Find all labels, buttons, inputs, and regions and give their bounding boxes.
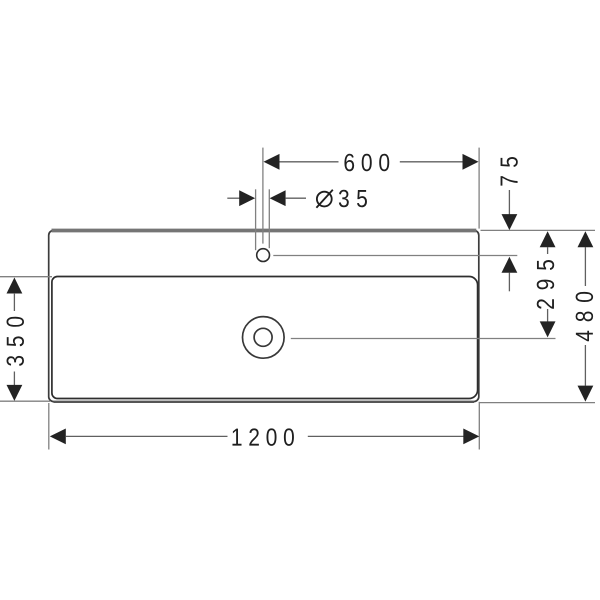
extension line: left top horizontal (0, 276, 52, 278)
extension line: bottom right horizontal (479, 402, 595, 404)
dim 600 arrow right (463, 154, 479, 170)
basin top rim band (52, 229, 477, 233)
dim 600 line right segment (400, 161, 463, 163)
extension line: bottom left vertical (48, 403, 50, 450)
dim 350 text (7, 317, 24, 366)
dim 35 right tail (285, 197, 306, 199)
extension line: faucet level horizontal (273, 255, 517, 257)
extension line: left bottom horizontal (0, 400, 50, 402)
extension line: bottom right vertical (478, 402, 480, 450)
dim 350 upper tail (13, 294, 15, 311)
basin inner rect (52, 277, 478, 399)
extension line: faucet center vertical (262, 148, 264, 244)
dim 295 arrow down (540, 321, 556, 337)
dim 480 lower tail (584, 345, 586, 386)
dim 75 tail upper (508, 190, 510, 215)
dim 35 arrow right pointing left (270, 190, 286, 206)
dim 75 tail lower (508, 273, 510, 292)
dim 600 line left segment (280, 161, 339, 163)
dim 295 arrow up (540, 231, 556, 247)
dim 350 arrow up (7, 278, 23, 294)
drain outer circle (242, 317, 284, 359)
dim 1200 arrow left (50, 429, 66, 445)
dim 1200 arrow right (463, 429, 479, 445)
extension line: right edge top vertical (478, 148, 480, 229)
dim 35 arrow left pointing right (239, 190, 255, 206)
extension line: hole right edge vertical (268, 189, 270, 248)
dim 295 text (537, 260, 554, 309)
dim 600 text (344, 154, 389, 171)
extension line: hole left edge vertical (255, 189, 257, 250)
dim 35 left tail (227, 197, 239, 199)
dim 480 upper tail (584, 247, 586, 286)
dim 480 arrow up (578, 231, 594, 247)
dim 1200 line left segment (66, 435, 228, 437)
dim 350 arrow down (7, 385, 23, 401)
dim 75 arrow down (502, 214, 518, 230)
dim 1200 text (232, 428, 293, 445)
dim 1200 line right segment (308, 435, 464, 437)
basin outer rect (49, 230, 479, 401)
drain inner circle (254, 328, 272, 346)
basin bottom rim emphasis (54, 401, 475, 403)
faucet hole (257, 249, 270, 262)
extension line: top right horizontal (481, 229, 596, 231)
dim 350 lower tail (13, 372, 15, 386)
dim 295 lower tail (547, 309, 549, 322)
dim 480 arrow down (578, 386, 594, 402)
dim 35 text (317, 192, 332, 207)
dim 480 text (576, 292, 593, 341)
dim 600 arrow left (264, 154, 280, 170)
extension line: drain level horizontal (291, 338, 556, 340)
dim 295 upper tail (547, 247, 549, 254)
dim 75 text (501, 157, 518, 186)
dim 75 arrow up below (502, 257, 518, 273)
